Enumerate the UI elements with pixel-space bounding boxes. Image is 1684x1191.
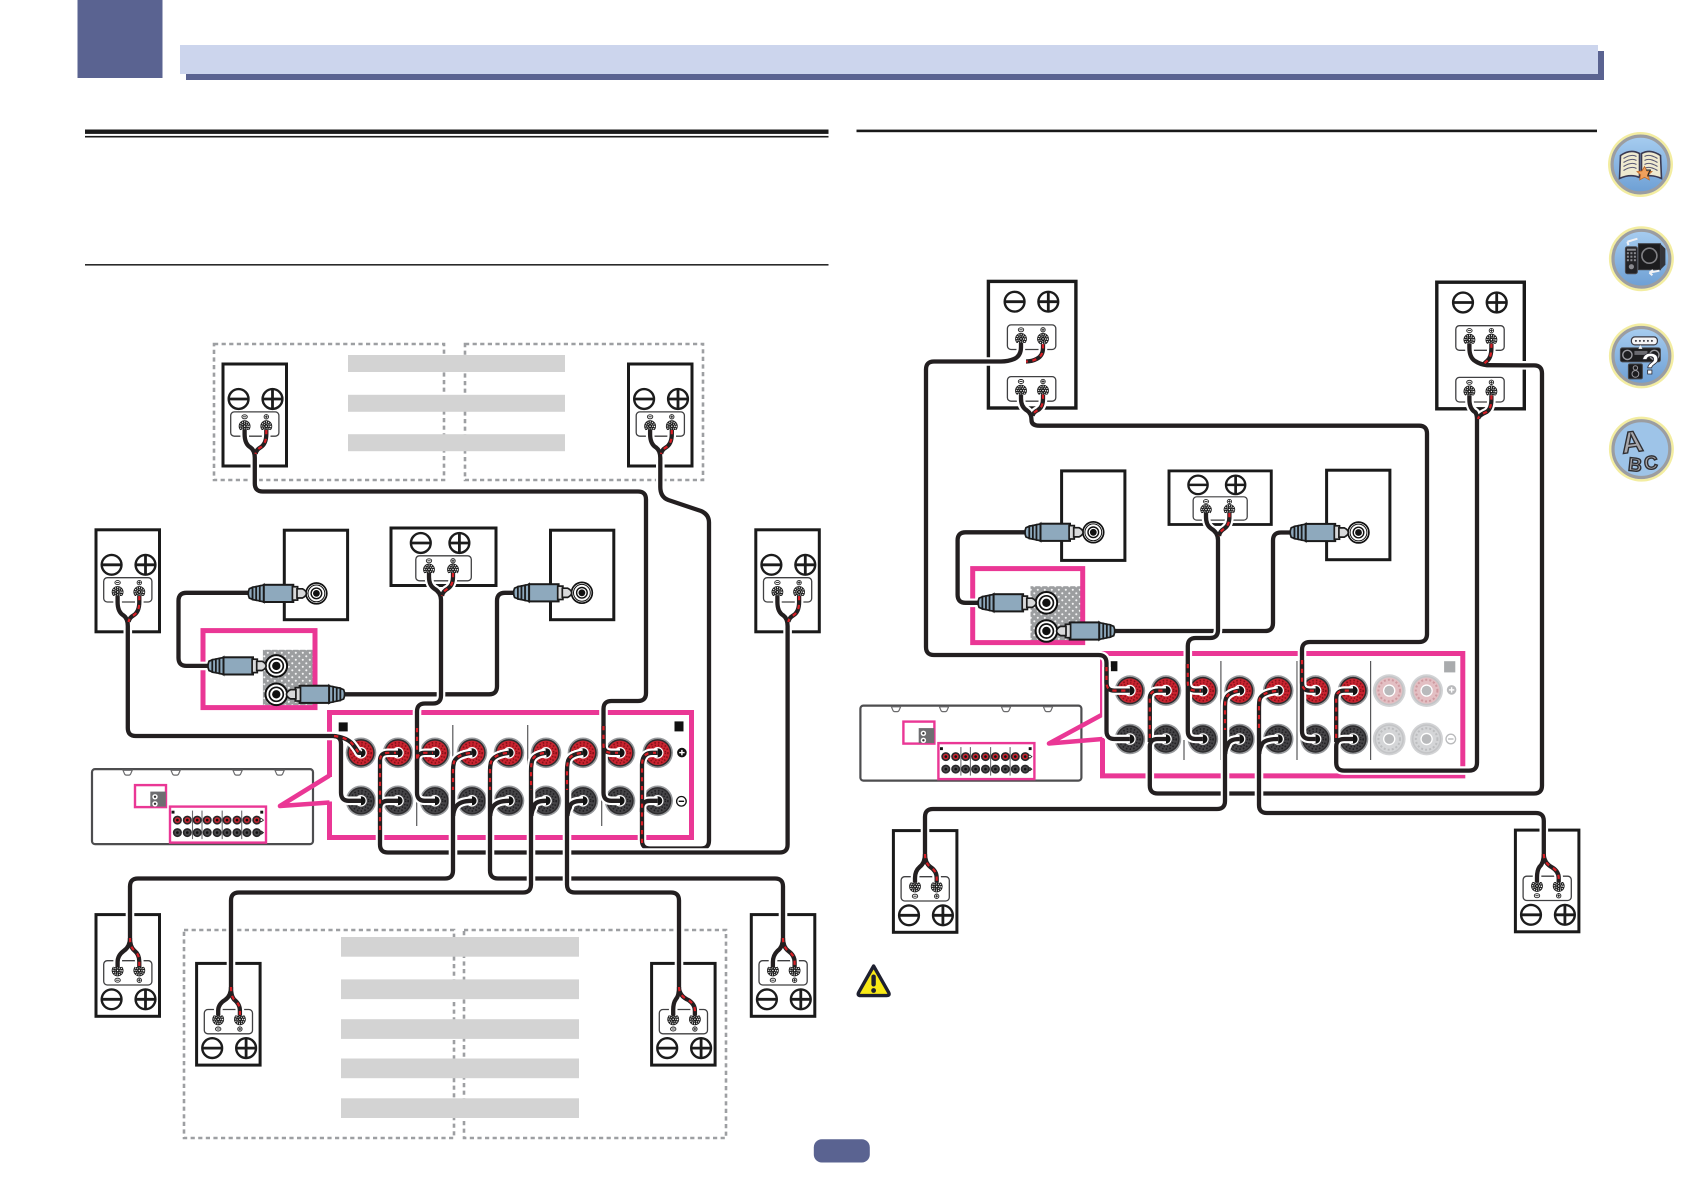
label bar row2 (bottom zone)	[341, 979, 579, 999]
speaker terminal c6- (left amp)	[531, 786, 562, 817]
wire SBL terminals to bottom inner-left speaker (left diagram)	[218, 753, 546, 1016]
RCA plug into subwoofer-left jack (right diagram)	[1025, 524, 1083, 541]
label bar row5 (bottom zone)	[341, 1098, 579, 1118]
label bar row2 (top zone)	[348, 395, 565, 412]
speaker terminal r3- (right amp)	[1188, 724, 1219, 755]
left column heading rule thin	[85, 136, 829, 138]
wire top-right speaker B to r7 terminals (right diagram)	[1336, 395, 1491, 770]
speaker terminal FL- (left amp)	[346, 786, 377, 817]
label bar row3 (bottom zone)	[341, 1019, 579, 1039]
speaker terminal c2+ (left amp)	[383, 738, 414, 769]
minus mark (left amp)	[677, 797, 687, 807]
icon stereo question (nav)	[1609, 323, 1674, 388]
speaker terminal c3+ (left amp)	[420, 738, 451, 769]
speaker terminal r7+ (right amp)	[1338, 675, 1369, 706]
header bar shadow	[186, 51, 1604, 80]
wire top-right speaker to SB-R terminals (left diagram)	[642, 430, 709, 849]
speaker-B terminal - (right amp)	[1373, 723, 1406, 756]
speaker top-right dashed (left diagram)	[629, 364, 693, 466]
speaker mid-left (left diagram)	[96, 530, 160, 632]
center speaker (left diagram)	[391, 528, 496, 586]
right column heading rule	[857, 130, 1598, 133]
warning triangle	[858, 966, 889, 996]
speaker terminal c7- (left amp)	[568, 786, 599, 817]
header dark blue square	[78, 0, 163, 78]
minus mark (right amp)	[1446, 734, 1456, 744]
svg-text:7: 7	[1646, 169, 1652, 180]
speaker bottom far-right (left diagram)	[751, 915, 815, 1017]
wire top-left speaker A to r1 terminals (right diagram)	[926, 343, 1130, 739]
SW preout jack 2 (left diagram)	[266, 684, 288, 706]
wire mid-left speaker to FL terminals (left diagram)	[118, 596, 361, 801]
speaker terminal r3+ (right amp)	[1188, 675, 1219, 706]
speaker terminal c2- (left amp)	[383, 786, 414, 817]
speaker terminal c6+ (left amp)	[531, 738, 562, 769]
subwoofer right (left diagram)	[551, 530, 614, 620]
speaker terminal r2- (right amp)	[1151, 724, 1182, 755]
receiver rear panel (right diagram)	[860, 706, 1081, 781]
speaker terminal r5- (right amp)	[1263, 724, 1294, 755]
center speaker (right diagram)	[1169, 471, 1271, 525]
RCA plug out of SW preout jack2 (left diagram)	[287, 686, 345, 703]
plus mark (left amp)	[677, 748, 687, 758]
left column heading rule thick	[85, 130, 829, 134]
speaker terminal r2+ (right amp)	[1151, 675, 1182, 706]
header light blue bar	[180, 45, 1598, 74]
red stripe overlays (right diagram)	[925, 344, 1559, 882]
svg-text:?: ?	[1641, 348, 1659, 381]
speaker terminals callout box (right diagram)	[1103, 654, 1463, 776]
square mark left (left amp)	[339, 722, 348, 731]
wire SR-A terminals to bottom far-left speaker (left diagram)	[118, 753, 472, 967]
dashed zone top-left (left diagram)	[214, 344, 444, 480]
svg-text:C: C	[1643, 453, 1658, 475]
subwoofer right (right diagram)	[1327, 470, 1390, 560]
speaker terminal c8+ (left amp)	[605, 738, 636, 769]
square mark right (left amp)	[675, 721, 684, 731]
wire top-right speaker A to r2 terminals (right diagram)	[1150, 344, 1542, 794]
speaker terminal r4+ (right amp)	[1224, 675, 1255, 706]
callout wedge to receiver (left diagram)	[280, 776, 330, 807]
speaker terminal c8- (left amp)	[605, 786, 636, 817]
speaker terminal c4- (left amp)	[457, 786, 488, 817]
square mark right (right amp)	[1444, 661, 1455, 672]
square mark left (right amp)	[1108, 661, 1117, 671]
speaker terminal r4- (right amp)	[1224, 724, 1255, 755]
wire RCA preout1 to subwoofer-left (right diagram)	[958, 532, 1028, 603]
wire RCA preout2 to subwoofer-right (right diagram)	[1110, 533, 1294, 632]
subwoofer right jack (left diagram)	[572, 582, 593, 603]
icon ABC glossary (nav)	[1609, 417, 1674, 482]
subwoofer preout callout box (left diagram)	[203, 631, 315, 708]
subwoofer left (right diagram)	[1062, 471, 1125, 561]
RCA plug into subwoofer-right jack (right diagram)	[1290, 524, 1348, 541]
subwoofer right jack (right diagram)	[1348, 522, 1369, 543]
divider lines (left amp)	[417, 725, 602, 826]
speaker mid-right (left diagram)	[756, 530, 820, 632]
speaker bottom far-left (left diagram)	[96, 915, 160, 1017]
wire sub1 cable (left diagram)	[179, 593, 252, 666]
speaker terminal r1- (right amp)	[1115, 724, 1146, 755]
speaker terminal c5+ (left amp)	[494, 738, 525, 769]
wire center speaker to r3 terminals (right diagram)	[1188, 513, 1230, 739]
SW preout jack 2 (right diagram)	[1036, 620, 1058, 642]
subwoofer preout callout box (right diagram)	[973, 569, 1083, 643]
speaker terminal c9- (left amp)	[642, 786, 673, 817]
RCA plug out of SW preout jack2 (right diagram)	[1057, 622, 1115, 639]
speaker terminal c9+ (left amp)	[642, 738, 673, 769]
dashed zone top-right (left diagram)	[465, 344, 703, 480]
wire sub2 cable (left diagram)	[341, 593, 517, 695]
speaker terminal r6- (right amp)	[1300, 724, 1331, 755]
label bar row1 (bottom zone)	[341, 937, 579, 1118]
speaker top-left dashed (left diagram)	[223, 364, 287, 466]
wire top-left speaker B to r6 terminals (right diagram)	[1021, 395, 1427, 739]
speaker terminal c4+ (left amp)	[457, 738, 488, 769]
wire top-left speaker to SB-L terminals (left diagram)	[245, 430, 646, 801]
speaker-B terminal + (right amp)	[1373, 674, 1406, 707]
wire SBR terminals to bottom inner-right speaker (left diagram)	[567, 753, 695, 1016]
speaker terminal r6+ (right amp)	[1300, 675, 1331, 706]
RCA plug into SW preout jack1 (left diagram)	[208, 657, 266, 674]
speaker top-right bi-amp (right diagram)	[1437, 282, 1525, 409]
plus mark (right amp)	[1447, 685, 1457, 695]
speaker terminal c3- (left amp)	[420, 786, 451, 817]
divider lines (right amp)	[1184, 661, 1371, 760]
speaker terminal FL+ (left amp)	[346, 738, 377, 769]
speaker bottom inner-right (left diagram)	[652, 963, 716, 1065]
receiver rear panel (left diagram)	[92, 769, 313, 844]
speaker bottom-right (right diagram)	[1515, 830, 1579, 932]
wire SR-B terminals to bottom far-right speaker (left diagram)	[490, 753, 795, 967]
RCA plug into subwoofer-right jack (left diagram)	[514, 584, 572, 601]
speaker terminal r1+ (right amp)	[1115, 675, 1146, 706]
svg-text:B: B	[1627, 454, 1643, 476]
subwoofer left (left diagram)	[284, 530, 347, 620]
left column sub rule	[85, 264, 829, 266]
speaker terminal r5+ (right amp)	[1263, 675, 1294, 706]
red stripe overlays (left diagram)	[129, 430, 800, 1015]
speaker bottom-left (right diagram)	[893, 831, 957, 933]
wire mid-right speaker to FR terminals (left diagram)	[380, 596, 799, 853]
SW preout jack 1 (right diagram)	[1036, 592, 1058, 614]
speaker terminal c5- (left amp)	[494, 786, 525, 817]
label bar row1 (top zone)	[348, 355, 565, 451]
subwoofer left jack (right diagram)	[1083, 522, 1104, 543]
RCA plug into SW preout jack1 (right diagram)	[978, 594, 1036, 611]
SW preout jack 1 (left diagram)	[266, 655, 288, 677]
speaker terminal r7- (right amp)	[1338, 724, 1369, 755]
wire r5 terminals to bottom-right speaker (right diagram)	[1259, 691, 1559, 882]
icon book (nav)	[1608, 132, 1673, 197]
page number pill	[814, 1139, 870, 1162]
speaker terminal c7+ (left amp)	[568, 738, 599, 769]
callout wedge to receiver (right diagram)	[1049, 715, 1103, 744]
subwoofer left jack (left diagram)	[306, 583, 327, 604]
icon remote+device (nav)	[1609, 226, 1674, 291]
label bar row3 (top zone)	[348, 434, 565, 451]
speaker terminals callout box (left diagram)	[330, 713, 692, 838]
dashed zone bottom-right (left diagram)	[464, 930, 726, 1138]
speaker bottom inner-left (left diagram)	[197, 963, 261, 1065]
RCA plug into subwoofer-left jack (left diagram)	[248, 585, 306, 602]
dashed zone bottom-left (left diagram)	[184, 930, 454, 1138]
speaker-B terminal2 - (right amp)	[1410, 723, 1443, 756]
wire center speaker to C terminals (left diagram)	[417, 573, 453, 801]
label bar row4 (bottom zone)	[341, 1059, 579, 1079]
speaker top-left bi-amp (right diagram)	[988, 281, 1076, 408]
speaker-B terminal2 + (right amp)	[1410, 674, 1443, 707]
wire r4 terminals to bottom-left speaker (right diagram)	[915, 691, 1240, 883]
